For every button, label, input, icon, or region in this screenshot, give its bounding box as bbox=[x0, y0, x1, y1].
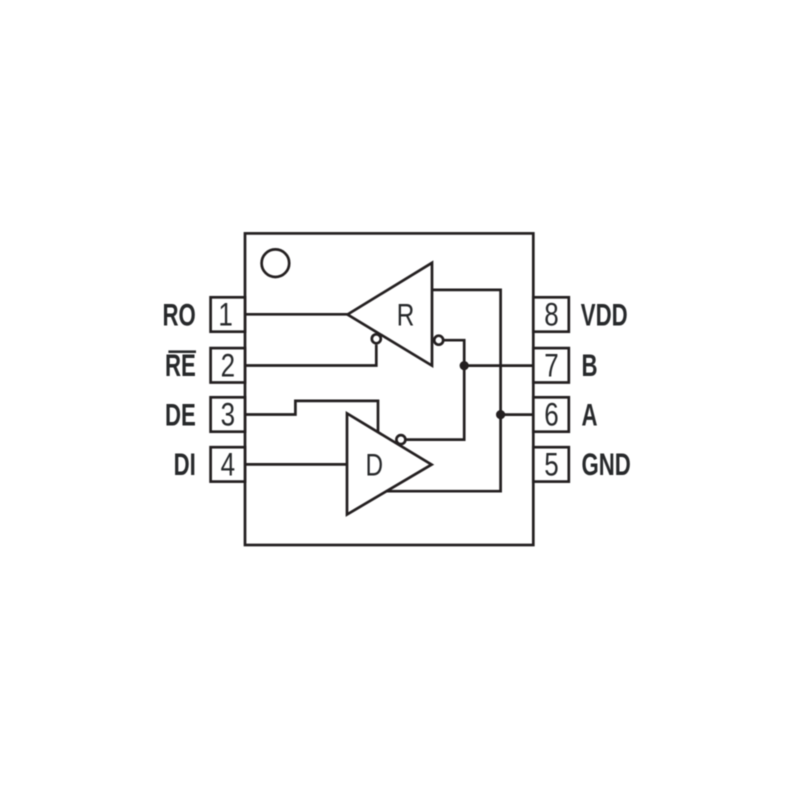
svg-text:VDD: VDD bbox=[581, 296, 628, 332]
bubble D inverting output (Z to B) bbox=[396, 435, 405, 444]
wire R base top to right vertical bbox=[386, 290, 500, 491]
pin box 2 bbox=[211, 348, 245, 382]
pin box 6 bbox=[533, 397, 569, 431]
svg-text:3: 3 bbox=[221, 397, 235, 433]
bubble R enable (active-low) bbox=[372, 334, 381, 343]
wire pin7 B stub bbox=[464, 364, 533, 367]
svg-text:RO: RO bbox=[163, 296, 196, 332]
driver D (triangle, output at right apex) bbox=[347, 413, 432, 514]
svg-text:B: B bbox=[582, 347, 598, 383]
IC body U1 (8-pin package outline) bbox=[245, 233, 533, 545]
pin box 4 bbox=[211, 447, 245, 481]
svg-text:D: D bbox=[366, 447, 384, 482]
svg-text:DE: DE bbox=[165, 396, 196, 432]
junction node B bbox=[460, 361, 469, 370]
svg-text:6: 6 bbox=[544, 397, 558, 433]
wire pin1 RO to R apex bbox=[245, 313, 348, 316]
wire pin4 DI to D base bbox=[245, 463, 347, 466]
pin box 7 bbox=[533, 348, 569, 382]
receiver R (triangle, output at left apex) bbox=[348, 263, 433, 366]
svg-text:GND: GND bbox=[582, 446, 631, 482]
wire pin2 RE up to R enable bubble bbox=[245, 345, 376, 366]
junction node A bbox=[496, 410, 505, 419]
svg-text:5: 5 bbox=[544, 447, 558, 483]
pin box 1 bbox=[211, 297, 245, 331]
svg-text:1: 1 bbox=[218, 297, 232, 333]
svg-text:8: 8 bbox=[544, 297, 558, 333]
pin box 5 bbox=[533, 447, 569, 481]
svg-text:R: R bbox=[397, 297, 415, 332]
svg-text:7: 7 bbox=[544, 348, 558, 384]
pin box 3 bbox=[211, 397, 245, 431]
pin box 8 bbox=[533, 297, 569, 331]
bubble R inverting input (B) bbox=[434, 336, 443, 345]
wire pin6 A stub bbox=[501, 413, 534, 416]
overline for RE bbox=[168, 350, 196, 353]
wire B net down to D inverting output bbox=[406, 366, 464, 440]
svg-text:A: A bbox=[582, 396, 598, 432]
svg-text:4: 4 bbox=[221, 447, 235, 483]
svg-text:2: 2 bbox=[221, 348, 235, 384]
wire pin3 DE to D enable bbox=[245, 401, 378, 432]
svg-text:DI: DI bbox=[174, 446, 196, 482]
wire R bubble to B net bbox=[444, 340, 464, 365]
pin-1 index marker circle bbox=[262, 249, 290, 277]
